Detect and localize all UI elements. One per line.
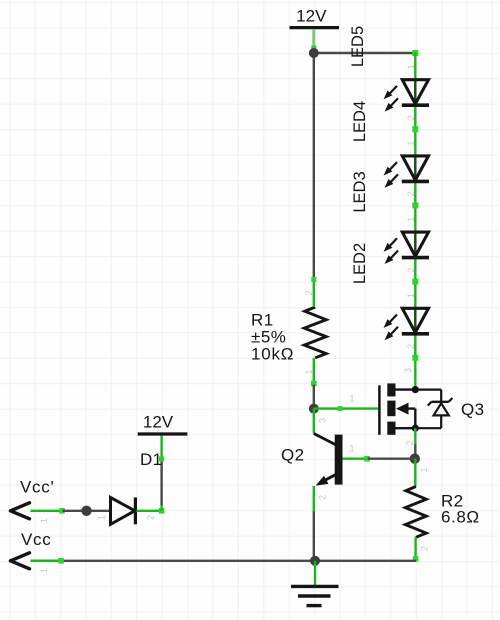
- svg-text:LED5: LED5: [349, 26, 367, 67]
- svg-text:2: 2: [406, 268, 416, 273]
- svg-text:2: 2: [420, 546, 430, 551]
- svg-text:3: 3: [318, 418, 328, 423]
- svg-text:Vcc': Vcc': [20, 478, 54, 497]
- svg-text:LED4: LED4: [351, 101, 369, 142]
- svg-text:1: 1: [349, 444, 354, 454]
- svg-text:1: 1: [406, 217, 416, 222]
- svg-text:2: 2: [146, 515, 156, 520]
- svg-text:LED2: LED2: [351, 243, 369, 284]
- svg-text:12V: 12V: [296, 7, 327, 26]
- svg-text:2: 2: [405, 440, 415, 445]
- svg-text:Q3: Q3: [461, 400, 484, 419]
- svg-text:Q2: Q2: [281, 446, 304, 465]
- svg-text:2: 2: [318, 495, 328, 500]
- svg-text:1: 1: [39, 518, 49, 523]
- svg-text:1: 1: [406, 64, 416, 69]
- svg-text:1: 1: [304, 369, 314, 374]
- svg-text:1: 1: [406, 293, 416, 298]
- svg-text:10kΩ: 10kΩ: [251, 345, 294, 364]
- svg-text:2: 2: [304, 290, 314, 295]
- svg-text:Vcc: Vcc: [21, 530, 51, 549]
- svg-text:1: 1: [39, 568, 49, 573]
- svg-text:1: 1: [349, 394, 354, 404]
- svg-text:2: 2: [406, 192, 416, 197]
- svg-text:1: 1: [406, 141, 416, 146]
- svg-text:3: 3: [403, 368, 413, 373]
- svg-text:6.8Ω: 6.8Ω: [441, 508, 480, 527]
- svg-text:D1: D1: [140, 450, 163, 469]
- svg-text:±5%: ±5%: [251, 327, 286, 346]
- svg-text:LED3: LED3: [351, 171, 369, 212]
- svg-text:1: 1: [97, 515, 107, 520]
- svg-text:2: 2: [406, 115, 416, 120]
- svg-text:2: 2: [406, 344, 416, 349]
- svg-text:1: 1: [419, 467, 429, 472]
- svg-text:12V: 12V: [143, 413, 174, 432]
